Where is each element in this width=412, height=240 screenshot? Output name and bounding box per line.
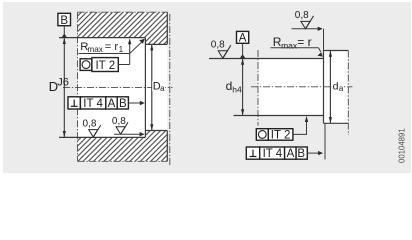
svg-text:00104891: 00104891: [398, 128, 407, 163]
svg-text:0,8: 0,8: [211, 39, 225, 50]
svg-text:= r: = r: [297, 35, 311, 49]
svg-text:IT 4: IT 4: [83, 98, 103, 110]
svg-text:B: B: [119, 98, 127, 110]
svg-text:IT 4: IT 4: [263, 148, 283, 160]
svg-text:A: A: [108, 98, 116, 110]
svg-text:a: a: [339, 84, 344, 93]
svg-text:B: B: [60, 15, 68, 27]
svg-text:0,8: 0,8: [83, 119, 97, 130]
svg-text:A: A: [239, 32, 247, 44]
svg-text:= r: = r: [105, 41, 119, 53]
svg-text:0,8: 0,8: [112, 116, 126, 127]
svg-text:1: 1: [119, 45, 124, 54]
svg-text:B: B: [297, 148, 305, 160]
svg-text:IT 2: IT 2: [271, 130, 291, 142]
svg-text:d: d: [333, 80, 339, 92]
svg-text:h4: h4: [232, 84, 242, 94]
svg-text:0,8: 0,8: [295, 10, 309, 21]
svg-text:max: max: [87, 45, 102, 54]
svg-text:a: a: [160, 84, 165, 93]
svg-text:d: d: [226, 79, 233, 93]
svg-text:A: A: [287, 148, 295, 160]
svg-text:IT 2: IT 2: [95, 60, 115, 72]
svg-text:max: max: [281, 40, 298, 50]
svg-text:J6: J6: [57, 76, 69, 88]
